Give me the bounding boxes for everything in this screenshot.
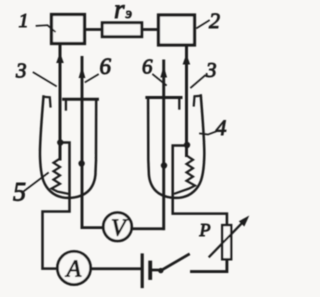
switch lever bbox=[161, 255, 189, 271]
rheostat arrow bbox=[210, 222, 244, 257]
wire 6 right (stirrer) bbox=[162, 61, 165, 229]
wire resistor to box2 bbox=[142, 28, 158, 31]
box 1 bbox=[52, 15, 85, 44]
arrowhead on wire 3 right bbox=[183, 54, 191, 65]
svg-text:6: 6 bbox=[142, 55, 153, 79]
arrowhead on wire 6 left bbox=[79, 67, 86, 79]
svg-text:1: 1 bbox=[19, 10, 29, 32]
switch pivot bbox=[158, 268, 163, 273]
left vessel lid bar bbox=[64, 98, 98, 101]
wire from right dot down to rheostat bbox=[173, 146, 227, 225]
battery short plate bbox=[148, 263, 152, 279]
right vessel (Dewar 4) outline bbox=[148, 96, 204, 198]
junction dot right thick wire bbox=[184, 142, 190, 148]
ammeter A bbox=[57, 251, 90, 284]
junction dot left 6-wire bbox=[78, 160, 84, 166]
wire box1 to resistor bbox=[85, 28, 102, 31]
svg-text:3: 3 bbox=[15, 59, 27, 83]
box 2 bbox=[159, 15, 195, 45]
leader tick for label 2 bbox=[197, 21, 209, 29]
leader tick label 6 right bbox=[153, 75, 166, 86]
wire 6 left (stirrer) bbox=[81, 58, 84, 228]
right vessel lid leg bbox=[178, 98, 180, 109]
leader tick label 6 left bbox=[86, 75, 99, 83]
junction dot right 6-wire bbox=[161, 162, 167, 168]
arrowhead on wire 6 right bbox=[160, 66, 167, 78]
wire switch to rheostat bbox=[192, 261, 227, 272]
left vessel lid leg bbox=[65, 100, 67, 110]
svg-text:э: э bbox=[126, 6, 132, 22]
leader tick label 3 right bbox=[191, 76, 205, 88]
leader tick label 4 bbox=[200, 132, 216, 135]
rheostat P body bbox=[222, 225, 231, 259]
wire voltmeter to right vessel wire bbox=[132, 227, 164, 230]
wire battery to switch bbox=[152, 269, 161, 272]
heater coil right (zigzag) bbox=[175, 156, 195, 194]
wire from left 6-wire to voltmeter bbox=[82, 226, 104, 229]
junction dot left thick wire bbox=[57, 139, 63, 145]
left vessel (Dewar 5) outline bbox=[40, 97, 96, 198]
svg-text:6: 6 bbox=[100, 54, 112, 79]
wire ammeter to battery bbox=[91, 267, 141, 270]
leader tick label 5 bbox=[24, 173, 48, 191]
svg-text:A: A bbox=[65, 257, 82, 283]
wire 3 left (thermocouple to box1) bbox=[59, 44, 62, 160]
svg-text:2: 2 bbox=[209, 8, 220, 33]
svg-text:3: 3 bbox=[205, 58, 217, 82]
left vessel lip curl bbox=[44, 97, 51, 107]
svg-text:P: P bbox=[199, 220, 211, 240]
leader tick for label 1 bbox=[37, 25, 56, 31]
heater coil 5 (left zigzag) bbox=[52, 159, 70, 195]
right vessel lip curl bbox=[194, 96, 201, 106]
svg-text:V: V bbox=[111, 216, 128, 242]
svg-text:4: 4 bbox=[216, 115, 227, 140]
wire from left dot down-left to ammeter loop bbox=[43, 143, 70, 269]
voltmeter V bbox=[103, 213, 131, 241]
right vessel lid bar bbox=[147, 96, 181, 99]
battery long plate bbox=[141, 255, 144, 287]
arrowhead on wire 3 left bbox=[56, 53, 64, 64]
wire 3 right (thermocouple to box2) bbox=[185, 45, 188, 156]
svg-text:r: r bbox=[114, 0, 125, 24]
resistor r_e bbox=[102, 23, 142, 37]
leader tick label 3 left bbox=[34, 73, 57, 87]
